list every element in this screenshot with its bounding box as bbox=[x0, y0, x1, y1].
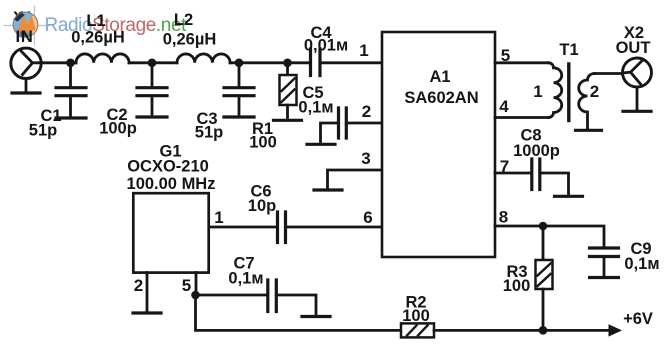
wire R2 to +6V bbox=[434, 329, 609, 332]
node D (R1/C4) bbox=[283, 59, 292, 68]
inductor L1 bbox=[76, 54, 129, 63]
capacitor C6 bbox=[248, 183, 286, 243]
svg-text:OUT: OUT bbox=[616, 39, 651, 57]
svg-text:2: 2 bbox=[362, 102, 371, 121]
svg-text:2: 2 bbox=[134, 276, 143, 295]
svg-text:100p: 100p bbox=[99, 120, 137, 138]
svg-text:1000p: 1000p bbox=[513, 142, 560, 160]
svg-text:1: 1 bbox=[214, 208, 223, 227]
svg-text:100: 100 bbox=[249, 134, 277, 152]
svg-text:0,26µH: 0,26µH bbox=[163, 31, 217, 49]
capacitor C5 bbox=[298, 84, 382, 143]
wire G1 pin1 to C6 bbox=[209, 226, 276, 229]
svg-text:A1: A1 bbox=[429, 68, 450, 86]
ground G1 pin2 bbox=[133, 311, 161, 314]
svg-text:10p: 10p bbox=[248, 197, 276, 215]
svg-text:8: 8 bbox=[499, 208, 508, 227]
capacitor C8 bbox=[513, 127, 568, 196]
wire supply rail bbox=[196, 295, 402, 330]
svg-text:3: 3 bbox=[361, 149, 370, 168]
node A (input / C1) bbox=[66, 59, 75, 68]
svg-text:5: 5 bbox=[182, 276, 191, 295]
capacitor C9 bbox=[590, 240, 660, 276]
node F (R3 bottom) bbox=[539, 326, 548, 335]
connector X2 bbox=[623, 58, 652, 87]
wire input to L1 bbox=[41, 61, 76, 64]
transformer T1 core bbox=[567, 64, 570, 121]
watermark crosshair bbox=[4, 6, 50, 45]
svg-text:51p: 51p bbox=[195, 124, 223, 142]
svg-text:5: 5 bbox=[501, 46, 510, 65]
wire G1 pin5 to node bbox=[195, 273, 198, 296]
svg-text:OCXO-210: OCXO-210 bbox=[127, 158, 209, 176]
capacitor C3 bbox=[195, 63, 254, 142]
IC A1 SA602AN bbox=[382, 32, 495, 257]
ground X1 bbox=[12, 91, 40, 94]
ground C2 bbox=[137, 115, 167, 118]
capacitor C4 bbox=[304, 24, 348, 76]
wire L2 to C4 bbox=[230, 61, 309, 64]
svg-text:100: 100 bbox=[402, 307, 430, 325]
svg-text:0,1м: 0,1м bbox=[228, 270, 263, 288]
resistor R1 bbox=[249, 63, 296, 152]
svg-text:L2: L2 bbox=[174, 11, 193, 29]
wire X2 to ground bbox=[636, 87, 639, 110]
+6V arrow bbox=[609, 324, 623, 336]
svg-text:7: 7 bbox=[500, 157, 509, 176]
capacitor C2 bbox=[99, 63, 167, 138]
wire pin5 to T1 bbox=[495, 61, 549, 64]
oscillator G1 OCXO-210 bbox=[127, 143, 216, 273]
wire pin7 to C8 bbox=[495, 172, 531, 175]
ground pin3 bbox=[314, 188, 342, 191]
capacitor C7 bbox=[196, 255, 317, 316]
svg-text:SA602AN: SA602AN bbox=[404, 89, 478, 107]
wire C4 to pin1 bbox=[320, 61, 382, 64]
svg-text:1: 1 bbox=[533, 82, 542, 101]
svg-text:0,01м: 0,01м bbox=[304, 37, 348, 55]
transformer T1 primary winding 1 bbox=[549, 63, 562, 118]
inductor L2 bbox=[177, 54, 230, 63]
svg-text:IN: IN bbox=[15, 28, 33, 46]
node E (G1 pin5 / C7 / rail) bbox=[191, 291, 200, 300]
wire C6 to pin6 bbox=[286, 226, 383, 229]
svg-text:100.00 MHz: 100.00 MHz bbox=[127, 175, 216, 193]
svg-text:L1: L1 bbox=[86, 12, 105, 30]
svg-text:4: 4 bbox=[499, 97, 509, 116]
wire pin3 to ground bbox=[328, 170, 383, 189]
svg-text:2: 2 bbox=[590, 82, 599, 101]
ground R1 bbox=[274, 119, 302, 122]
svg-text:T1: T1 bbox=[559, 41, 578, 59]
ground C8 bbox=[555, 195, 583, 198]
svg-text:+6V: +6V bbox=[623, 310, 653, 328]
ground C3 bbox=[224, 115, 254, 118]
ground C9 bbox=[590, 276, 619, 279]
wire pin8 to C9 bbox=[495, 226, 604, 247]
node C (C3) bbox=[235, 59, 244, 68]
logo icon globe bbox=[13, 12, 38, 38]
ground T1 secondary bbox=[576, 129, 602, 132]
node B (C2) bbox=[148, 59, 157, 68]
wire pin4 to T1 bbox=[495, 116, 549, 119]
resistor R2 bbox=[401, 294, 434, 338]
ground C1 bbox=[56, 116, 86, 119]
wire G1 pin2 to ground bbox=[146, 273, 149, 312]
svg-text:0,1м: 0,1м bbox=[298, 99, 333, 117]
wire L1 to L2 bbox=[129, 61, 177, 64]
ground C5 bbox=[307, 143, 335, 146]
svg-text:1: 1 bbox=[359, 41, 368, 60]
resistor R3 bbox=[503, 226, 553, 330]
svg-text:51p: 51p bbox=[29, 122, 57, 140]
node G (pin8 / R3) bbox=[539, 222, 548, 231]
svg-text:0,1м: 0,1м bbox=[624, 255, 659, 273]
wire T1 to X2 bbox=[594, 72, 623, 75]
ground C7 bbox=[302, 315, 330, 318]
svg-text:100: 100 bbox=[503, 277, 531, 295]
transformer T1 secondary winding 2 bbox=[579, 74, 594, 130]
ground X2 bbox=[623, 110, 651, 113]
capacitor C1 bbox=[29, 63, 86, 140]
wire X1 to ground bbox=[25, 79, 28, 93]
svg-text:6: 6 bbox=[363, 208, 372, 227]
connector X1 bbox=[11, 48, 41, 78]
svg-text:0,26µH: 0,26µH bbox=[71, 29, 125, 47]
